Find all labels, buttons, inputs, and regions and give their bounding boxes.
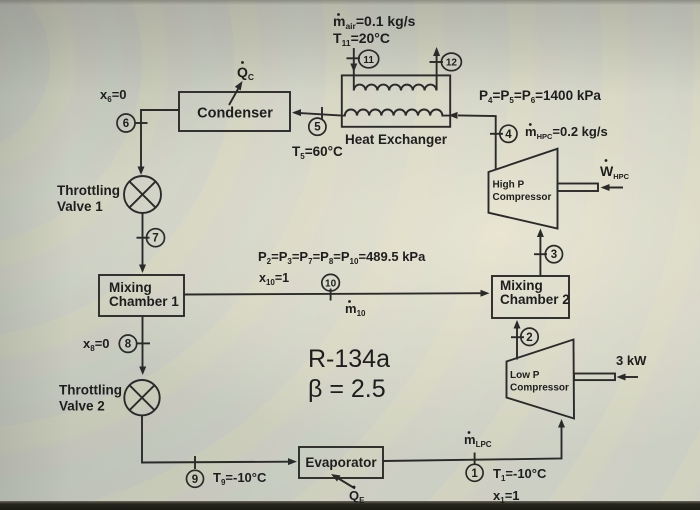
svg-text:T5=60°C: T5=60°C bbox=[292, 144, 343, 161]
svg-text:5: 5 bbox=[314, 122, 321, 134]
wire low P compressor to mixing chamber 2 bbox=[514, 320, 521, 360]
node 12 tick bbox=[430, 61, 444, 63]
node 9 tick bbox=[194, 456, 196, 469]
node 1 tick bbox=[474, 453, 476, 466]
node 3 tick bbox=[534, 253, 547, 255]
node 3 bbox=[545, 246, 562, 263]
throttling valve 1 bbox=[124, 176, 161, 213]
label m_air = 0.1 kg/s bbox=[333, 13, 416, 31]
svg-text:WHPC: WHPC bbox=[600, 163, 630, 181]
node 1 bbox=[466, 464, 483, 481]
node 11 tick bbox=[347, 57, 361, 59]
wire mixing chamber 2 to high P compressor bbox=[537, 229, 544, 277]
svg-text:Throttling: Throttling bbox=[57, 183, 120, 198]
mixing chamber 1 box bbox=[99, 275, 184, 316]
label m_LPC bbox=[464, 431, 492, 449]
svg-text:Low P: Low P bbox=[510, 370, 540, 381]
node 10 tick bbox=[330, 289, 332, 301]
svg-text:Chamber 2: Chamber 2 bbox=[500, 292, 570, 307]
wire mixing chamber 1 to mixing chamber 2 bbox=[184, 290, 490, 297]
svg-text:QE: QE bbox=[349, 488, 365, 505]
wire valve 1 to mixing chamber 1 bbox=[139, 213, 146, 273]
svg-text:Condenser: Condenser bbox=[197, 106, 273, 122]
wire condenser to throttling valve 1 bbox=[138, 110, 180, 175]
heat exchanger box bbox=[342, 75, 450, 126]
svg-text:Compressor: Compressor bbox=[510, 383, 569, 394]
svg-text:x10=1: x10=1 bbox=[259, 271, 289, 287]
svg-text:QC: QC bbox=[237, 64, 254, 82]
node 8 bbox=[119, 335, 136, 352]
svg-text:11: 11 bbox=[363, 55, 374, 66]
svg-text:6: 6 bbox=[123, 118, 129, 130]
svg-text:1: 1 bbox=[471, 468, 478, 480]
svg-text:P4=P5=P6=1400 kPa: P4=P5=P6=1400 kPa bbox=[479, 88, 601, 105]
svg-text:Heat Exchanger: Heat Exchanger bbox=[345, 132, 448, 147]
svg-text:T11=20°C: T11=20°C bbox=[333, 30, 390, 48]
svg-text:m10: m10 bbox=[345, 301, 366, 318]
svg-text:3 kW: 3 kW bbox=[616, 353, 647, 368]
heat exchanger air coil (top) bbox=[354, 85, 437, 91]
svg-text:Compressor: Compressor bbox=[493, 192, 552, 203]
node 4 tick bbox=[490, 133, 503, 135]
wire evaporator to low P compressor bbox=[383, 419, 565, 461]
node 5 bbox=[309, 118, 326, 135]
svg-text:7: 7 bbox=[152, 233, 158, 245]
svg-text:Evaporator: Evaporator bbox=[305, 455, 377, 470]
svg-text:β = 2.5: β = 2.5 bbox=[308, 375, 386, 403]
node 5 tick bbox=[321, 107, 323, 120]
condenser box bbox=[179, 92, 290, 131]
node 6 bbox=[117, 114, 135, 132]
low P compressor shaft bbox=[574, 374, 615, 381]
node 9 bbox=[187, 470, 204, 487]
mixing chamber 2 box bbox=[492, 276, 569, 318]
svg-text:Chamber 1: Chamber 1 bbox=[109, 294, 179, 309]
label m_10 bbox=[345, 300, 366, 318]
heat exchanger refrigerant coil (bottom) bbox=[342, 109, 450, 115]
node 7 tick bbox=[137, 237, 150, 239]
svg-text:2: 2 bbox=[526, 332, 532, 344]
wire mixing chamber 1 to valve 2 bbox=[139, 316, 146, 375]
svg-text:Valve 2: Valve 2 bbox=[59, 399, 105, 414]
throttling valve 2 bbox=[124, 380, 159, 415]
low P compressor bbox=[507, 340, 575, 419]
node 2 bbox=[521, 328, 538, 345]
svg-text:mair=0.1 kg/s: mair=0.1 kg/s bbox=[333, 13, 416, 31]
node 10 bbox=[322, 274, 340, 291]
svg-text:Throttling: Throttling bbox=[59, 383, 122, 398]
shaft power arrow 3 kW bbox=[617, 374, 639, 381]
node 7 bbox=[147, 229, 165, 247]
svg-text:x6=0: x6=0 bbox=[100, 87, 127, 104]
high P compressor bbox=[489, 149, 558, 229]
node 4 bbox=[500, 125, 517, 142]
svg-text:T1=-10°C: T1=-10°C bbox=[493, 466, 547, 483]
shaft power arrow W_HPC bbox=[601, 184, 624, 191]
svg-text:4: 4 bbox=[505, 129, 512, 141]
label QE bbox=[349, 486, 365, 505]
wire heat exchanger to condenser bbox=[292, 109, 342, 116]
node 11 bbox=[359, 50, 379, 68]
label W_HPC bbox=[600, 159, 630, 181]
svg-text:mHPC=0.2 kg/s: mHPC=0.2 kg/s bbox=[525, 124, 608, 141]
wire valve 2 to evaporator bbox=[142, 415, 297, 465]
heat arrow Qc bbox=[229, 81, 243, 105]
svg-text:8: 8 bbox=[125, 339, 132, 351]
label m_HPC = 0.2 kg/s bbox=[525, 123, 608, 141]
svg-text:x1=1: x1=1 bbox=[493, 488, 520, 505]
svg-text:mLPC: mLPC bbox=[464, 432, 492, 449]
svg-text:x8=0: x8=0 bbox=[83, 336, 110, 353]
wire outlet 12 bbox=[433, 47, 440, 91]
node 2 tick bbox=[511, 336, 524, 338]
svg-text:P2=P3=P7=P8=P10=489.5 kPa: P2=P3=P7=P8=P10=489.5 kPa bbox=[258, 249, 426, 266]
svg-text:High P: High P bbox=[493, 180, 525, 191]
high P compressor shaft bbox=[558, 184, 599, 192]
svg-text:9: 9 bbox=[192, 474, 198, 486]
wire HPC outlet to heat exchanger bbox=[449, 112, 496, 170]
svg-text:12: 12 bbox=[446, 58, 458, 69]
label Qc bbox=[237, 61, 254, 82]
node 12 bbox=[441, 53, 461, 71]
heat arrow QE bbox=[331, 474, 355, 489]
wire inlet 11 bbox=[350, 48, 357, 91]
svg-text:R-134a: R-134a bbox=[308, 345, 390, 373]
svg-text:10: 10 bbox=[325, 279, 337, 290]
svg-text:3: 3 bbox=[551, 249, 557, 261]
svg-text:Mixing: Mixing bbox=[109, 280, 152, 295]
svg-text:Valve 1: Valve 1 bbox=[57, 199, 103, 214]
node 8 tick bbox=[137, 342, 150, 344]
svg-text:Mixing: Mixing bbox=[500, 278, 543, 293]
evaporator box bbox=[299, 447, 383, 478]
svg-text:T9=-10°C: T9=-10°C bbox=[213, 470, 267, 487]
node 6 tick bbox=[135, 122, 148, 124]
